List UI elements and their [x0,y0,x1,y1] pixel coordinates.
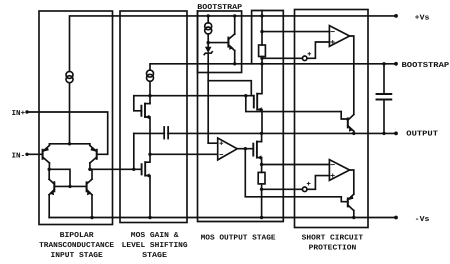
mosfet M3 [254,94,262,134]
svg-text:IN+: IN+ [12,110,26,118]
zener diode D1 [204,47,212,55]
zener bottom wire to U1 input [207,53,209,143]
svg-text:LEVEL SHIFTING: LEVEL SHIFTING [122,241,188,250]
mosfet M4 [253,142,261,160]
R2 bottom wire [261,184,263,218]
M1 drain line to M3 gate [150,95,254,97]
svg-text:MOS GAIN &: MOS GAIN & [131,231,179,240]
current source I2 wire bottom [149,81,151,103]
M3 gate sense wire to Q5 base [246,96,341,112]
block 1 outline: bipolar transconductance input stage [39,11,113,225]
bootstrap rail [150,64,396,70]
transistor Q5 [348,115,354,132]
B1 wire to R1 bottom node [262,57,303,59]
Q1 emitter wire [49,144,69,145]
Q2 collector wire [90,163,142,169]
bootstrap box outline [198,11,242,73]
svg-text:IN-: IN- [12,153,26,161]
I3 to zener node wire [207,34,209,47]
resistor R1 [259,45,266,57]
U1 upper input wire from zener line [208,142,218,144]
resistor R1 top wire [261,11,263,46]
A1 lower input wire with offset source [307,42,329,58]
transistor Q1 [43,146,50,164]
svg-text:BIPOLAR: BIPOLAR [60,231,95,240]
svg-text:INPUT STAGE: INPUT STAGE [51,251,104,260]
bootstrap capacitor C2 wire [383,64,385,94]
resistor R2 [258,172,265,184]
IN+ wire [27,112,108,154]
svg-text:BOOTSTRAP: BOOTSTRAP [402,61,450,70]
transistor Q2 [90,146,97,164]
R1 bottom wire [261,57,263,64]
capacitor C1 [163,127,168,139]
svg-text:BOOTSTRAP: BOOTSTRAP [197,3,242,12]
M1 gate wire (diode connection) [134,96,150,111]
Q3 emitter wire [48,195,50,218]
svg-text:OUTPUT: OUTPUT [406,129,438,138]
svg-text:MOS OUTPUT STAGE: MOS OUTPUT STAGE [201,233,277,242]
mosfet M2 [142,154,150,217]
svg-text:TRANSCONDUCTANCE: TRANSCONDUCTANCE [39,241,115,250]
op-amp A2 [329,160,349,181]
A2 output wire to Q6 emitter [350,170,354,194]
U1 output sense wire to Q6 base [245,149,347,202]
+Vs rail [70,16,397,71]
node wire Q7 base [208,42,228,44]
Q5 emitter wire to output rail [353,131,355,133]
svg-text:STAGE: STAGE [142,251,167,260]
R2 sense line to A2 [262,164,330,166]
Q6 collector wire to -Vs rail [353,211,355,218]
Q3 collector wire [48,169,50,179]
block 4 outline: short circuit protection [295,10,369,228]
svg-text:+Vs: +Vs [415,14,430,22]
Q3 Q4 base wire [54,185,86,187]
transistor Q7 [228,34,234,51]
Q1 collector wire [49,163,70,186]
M3 drain wire [257,64,262,94]
B1 plus mark [308,52,311,55]
mosfet M1 [141,104,150,155]
R1 sense line to A1 [262,31,329,33]
Q4 emitter wire [91,195,93,218]
R2 bottom line to A2 offset source [262,188,303,190]
capacitor C2 [377,94,392,100]
-Vs rail [49,217,396,219]
M2 drain node line to U1 input [150,153,217,155]
output rail [134,132,396,134]
svg-text:-Vs: -Vs [415,216,430,224]
op-amp A1 [329,26,349,47]
Q2 emitter wire [70,144,90,145]
B2 plus mark [307,182,310,185]
svg-text:SHORT CIRCUIT: SHORT CIRCUIT [302,233,364,242]
A1 output wire to Q5 collector [350,36,354,114]
Q4 collector wire [91,169,93,179]
M4 drain wire [261,133,263,141]
Q5 base step wire [341,112,348,119]
compensation capacitor C1 wire left [133,133,135,169]
Q7 emitter wire [234,16,236,34]
current source I3 [205,23,212,30]
transistor Q6 [348,194,354,210]
offset source circle B2 [302,187,307,192]
block 3 outline: MOS output stage [198,11,284,222]
bootstrap current source I3 wire [207,16,209,23]
M4 source wire to R2 [261,158,263,173]
IN- wire [27,153,42,155]
svg-text:PROTECTION: PROTECTION [309,244,357,253]
Q7 collector wire [234,51,236,64]
block 4 caption [302,233,364,252]
A2 lower input wire with offset source [307,176,329,190]
U1 output wire to M4 gate [237,148,253,150]
capacitor C1 gap mask [165,127,167,140]
block 1 caption [39,231,115,260]
current source I2 [147,70,154,77]
current source I1 wire [69,83,71,144]
block 2 outline: MOS gain and level shifting stage [120,11,187,223]
transistor Q3 [49,179,54,195]
transistor Q4 [87,179,92,195]
block 2 caption [122,231,188,260]
current source I1 [66,71,73,78]
offset source circle B1 [302,56,307,61]
op-amp U1 [218,138,238,160]
zener line to M3 gate region [208,81,251,96]
